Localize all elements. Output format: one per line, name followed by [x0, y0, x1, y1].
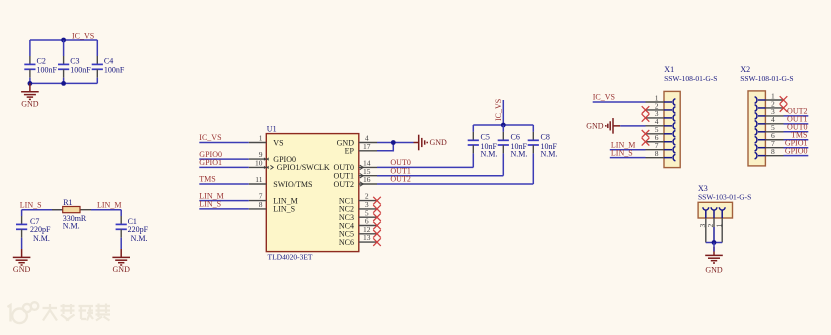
X2 pin 8 contact arc: [755, 152, 766, 159]
capacitor C7: [16, 210, 27, 249]
X1 pin 3 stub: [646, 117, 665, 119]
svg-text:LIN_M: LIN_M: [97, 201, 121, 210]
svg-text:GND: GND: [113, 265, 131, 274]
svg-text:17: 17: [363, 142, 371, 151]
svg-text:IC_VS: IC_VS: [72, 32, 94, 41]
svg-text:8: 8: [771, 147, 775, 156]
svg-text:IC_VS: IC_VS: [199, 133, 221, 142]
svg-text:1: 1: [259, 134, 263, 143]
svg-text:N.M.: N.M.: [541, 149, 558, 158]
X1 pin 5 contact arc: [664, 131, 675, 138]
X1 pin 4 stub: [646, 125, 665, 127]
X1 pin 7 contact arc: [664, 146, 675, 153]
X3 pin 2 contact arc: [711, 207, 717, 218]
pin 15 output marker: [360, 174, 364, 178]
svg-text:GPIO1: GPIO1: [199, 158, 222, 167]
node junction top rail: [61, 38, 66, 43]
X2 pin 3 contact arc: [755, 113, 766, 120]
wire LIN_S to X1 pin8: [610, 157, 646, 159]
svg-text:100nF: 100nF: [37, 66, 58, 75]
svg-text:C2: C2: [37, 56, 46, 65]
svg-text:SSW-108-01-G-S: SSW-108-01-G-S: [740, 74, 793, 83]
svg-text:8: 8: [655, 149, 659, 158]
power ground symbol (right of U1): [414, 135, 428, 151]
svg-text:EP: EP: [345, 147, 355, 156]
svg-text:GND: GND: [21, 99, 39, 108]
pin 17 (EP) stub: [359, 150, 377, 152]
svg-text:C8: C8: [541, 132, 550, 141]
svg-text:16: 16: [363, 175, 371, 184]
svg-text:TLD4020-3ET: TLD4020-3ET: [268, 253, 313, 262]
pin 2 (NC1) stub: [359, 200, 377, 202]
wire net LIN_S: [199, 208, 249, 210]
pin 9 (GPIO0) stub: [249, 158, 266, 160]
X2 pin 4 contact arc: [755, 121, 766, 128]
wire pin17 to junction: [377, 143, 393, 151]
X2 pin 6 stub: [765, 139, 783, 141]
wire pin4 to ground: [377, 142, 414, 144]
resistor R1: [52, 207, 91, 213]
X2 pin 4 stub: [765, 123, 783, 125]
svg-text:C4: C4: [104, 56, 113, 65]
node junction IC_VS rail: [501, 123, 506, 128]
wire cap rail: [473, 124, 533, 126]
svg-text:100nF: 100nF: [104, 66, 125, 75]
pin 6 (NC4) stub: [359, 225, 377, 227]
ground GND below C2: [21, 83, 39, 99]
wire net GPIO1: [199, 166, 249, 168]
X3 pin 1 contact arc: [719, 207, 725, 218]
X1 pin 6 stub: [646, 141, 665, 143]
no-connect marker pin 2: [373, 197, 381, 205]
svg-text:IC_VS: IC_VS: [494, 99, 503, 121]
svg-text:220pF: 220pF: [30, 225, 51, 234]
wire net OUT2 at X2: [784, 115, 809, 117]
svg-text:LIN_S: LIN_S: [199, 200, 221, 209]
ground GND below C7: [13, 249, 31, 265]
X3 pin 1 stub: [721, 218, 723, 243]
pin 12 (NC5) stub: [359, 233, 377, 235]
svg-text:VS: VS: [273, 138, 283, 147]
wire IC_VS to X1 pin1: [593, 101, 646, 103]
capacitor C2: [24, 40, 35, 83]
svg-text:8: 8: [259, 200, 263, 209]
pin 10 (GPIO1/SWCLK) stub: [249, 166, 266, 168]
IC U1 body TLD4020-3ET: [266, 134, 359, 252]
capacitor C8: [528, 125, 539, 184]
X3 pin 3 stub: [705, 218, 707, 243]
wire net GPIO0: [199, 158, 249, 160]
pin 7 (LIN_M) stub: [249, 200, 266, 202]
pin 15 (OUT1) stub: [359, 175, 377, 177]
svg-text:11: 11: [255, 175, 262, 184]
svg-text:OUT2: OUT2: [334, 180, 354, 189]
svg-text:U1: U1: [267, 124, 277, 133]
X2 pin 2 contact arc: [755, 105, 766, 112]
pin 8 (LIN_S) stub: [249, 208, 266, 210]
X2 pin 1 contact arc: [755, 97, 766, 104]
pin 1 (VS) stub: [249, 142, 266, 144]
X1 pin 5 stub: [646, 133, 665, 135]
no-connect marker X2 pin 2: [780, 104, 788, 112]
svg-text:100nF: 100nF: [70, 66, 91, 75]
X1 pin 2 contact arc: [664, 107, 675, 114]
wire net TMS: [199, 183, 249, 185]
capacitor C4: [92, 40, 103, 83]
wire net IC_VS: [199, 142, 249, 144]
wire X3 to ground: [713, 243, 715, 252]
svg-text:OUT2: OUT2: [390, 175, 410, 184]
no-connect marker X1 pin 3: [642, 114, 650, 122]
X2 pin 1 stub: [765, 99, 783, 101]
watermark text (stylized): [43, 304, 111, 321]
wire LIN_S segment: [22, 209, 62, 211]
svg-text:LIN_S: LIN_S: [20, 201, 42, 210]
svg-text:C3: C3: [70, 56, 79, 65]
no-connect marker pin 3: [373, 205, 381, 213]
X1 pin 8 stub: [646, 157, 665, 159]
no-connect marker X1 pin 6: [642, 138, 650, 146]
svg-text:TMS: TMS: [199, 175, 215, 184]
svg-text:GND: GND: [13, 265, 31, 274]
X2 pin 7 stub: [765, 147, 783, 149]
connector X2 body: [748, 91, 765, 166]
wire X3 common: [706, 242, 722, 244]
watermark logo: [8, 302, 39, 323]
wire net LIN_M: [199, 200, 249, 202]
wire net TMS at X2: [784, 139, 809, 141]
X2 pin 6 contact arc: [755, 136, 766, 143]
wire IC_VS top rail: [30, 39, 97, 41]
node junction bottom rail mid: [61, 81, 66, 86]
X1 pin 4 contact arc: [664, 123, 675, 130]
node junction bottom rail left: [28, 81, 33, 86]
pin 4 (GND) stub: [359, 142, 377, 144]
X1 pin 1 contact arc: [664, 99, 675, 106]
power ground symbol at X1 pin4: [606, 118, 620, 134]
wire net OUT1 at X2: [784, 123, 809, 125]
svg-text:GND: GND: [430, 138, 448, 147]
wire X3 middle pin segment: [713, 227, 715, 243]
no-connect marker X2 pin 1: [780, 96, 788, 104]
svg-text:SWIO/TMS: SWIO/TMS: [273, 180, 312, 189]
svg-text:N.M.: N.M.: [481, 149, 498, 158]
pin 5 (NC3) stub: [359, 216, 377, 218]
pin 13 (NC6) stub: [359, 241, 377, 243]
wire net GPIO0 at X2: [784, 155, 809, 157]
wire net OUT0 at X2: [784, 131, 809, 133]
no-connect marker pin 6: [373, 222, 381, 230]
X2 pin 2 stub: [765, 107, 783, 109]
pin 14 (OUT0) stub: [359, 166, 377, 168]
pin 16 output marker: [360, 182, 364, 186]
pin 10 IEEE input + clock marker: [264, 166, 269, 169]
X1 pin 1 stub: [646, 101, 665, 103]
svg-text:NC6: NC6: [339, 238, 354, 247]
ground GND below X3: [705, 247, 723, 263]
no-connect marker pin 12: [373, 230, 381, 238]
svg-text:13: 13: [363, 233, 371, 242]
svg-text:N.M.: N.M.: [131, 234, 148, 243]
capacitor C1: [116, 210, 127, 249]
X1 pin 3 contact arc: [664, 115, 675, 122]
wire IC_VS vertical: [502, 100, 504, 125]
pin 3 (NC2) stub: [359, 208, 377, 210]
svg-text:N.M.: N.M.: [33, 234, 50, 243]
no-connect marker pin 13: [373, 238, 381, 246]
svg-text:X1: X1: [664, 65, 674, 74]
svg-text:C6: C6: [511, 132, 520, 141]
wire bottom rail: [30, 82, 97, 84]
svg-text:X2: X2: [740, 65, 750, 74]
ground GND below C1: [112, 249, 130, 265]
X3 pin 3 contact arc: [703, 207, 709, 218]
capacitor C5: [468, 125, 479, 167]
capacitor C6: [498, 125, 509, 176]
X2 pin 8 stub: [765, 155, 783, 157]
node junction X3: [712, 240, 717, 245]
X1 pin 6 contact arc: [664, 138, 675, 145]
capacitor C3: [58, 40, 69, 83]
X1 pin 8 contact arc: [664, 154, 675, 161]
X2 pin 5 contact arc: [755, 129, 766, 136]
connector X3 body: [698, 202, 732, 218]
wire net GPIO1 at X2: [784, 147, 809, 149]
X3 pin 2 stub: [713, 218, 715, 243]
svg-text:SSW-108-01-G-S: SSW-108-01-G-S: [664, 74, 717, 83]
wire LIN_M segment: [91, 209, 121, 211]
X2 pin 3 stub: [765, 115, 783, 117]
pin 9 IEEE input marker: [264, 157, 269, 160]
svg-text:GPIO1/SWCLK: GPIO1/SWCLK: [277, 163, 330, 172]
X1 pin 2 stub: [646, 109, 665, 111]
svg-text:R1: R1: [63, 198, 72, 207]
node junction pin4/pin17: [391, 140, 396, 145]
svg-text:220pF: 220pF: [128, 225, 149, 234]
svg-text:SSW-103-01-G-S: SSW-103-01-G-S: [698, 192, 751, 201]
svg-text:LIN_S: LIN_S: [273, 205, 295, 214]
connector X1 body: [664, 91, 680, 167]
wire net OUT2: [377, 183, 533, 185]
svg-text:N.M.: N.M.: [511, 149, 528, 158]
pin 14 output marker: [360, 165, 364, 169]
pin 11 (SWIO/TMS) stub: [249, 183, 266, 185]
wire LIN_M to X1 pin7: [610, 149, 646, 151]
wire net OUT1: [377, 175, 503, 177]
svg-text:GND: GND: [705, 266, 723, 275]
pin 16 (OUT2) stub: [359, 183, 377, 185]
X2 pin 7 contact arc: [755, 144, 766, 151]
svg-text:1: 1: [714, 224, 723, 228]
svg-text:C5: C5: [481, 132, 490, 141]
svg-text:N.M.: N.M.: [63, 221, 80, 230]
no-connect marker X1 pin 5: [642, 130, 650, 138]
X1 pin 7 stub: [646, 149, 665, 151]
wire net OUT0: [377, 166, 473, 168]
svg-text:LIN_S: LIN_S: [611, 148, 633, 157]
svg-text:10: 10: [255, 159, 263, 168]
X2 pin 5 stub: [765, 131, 783, 133]
wire GND to X1 pin4: [620, 125, 645, 127]
svg-text:GND: GND: [586, 121, 604, 130]
no-connect marker X1 pin 2: [642, 106, 650, 114]
svg-text:GPIO0: GPIO0: [785, 146, 808, 155]
svg-text:IC_VS: IC_VS: [593, 93, 615, 102]
no-connect marker pin 5: [373, 213, 381, 221]
